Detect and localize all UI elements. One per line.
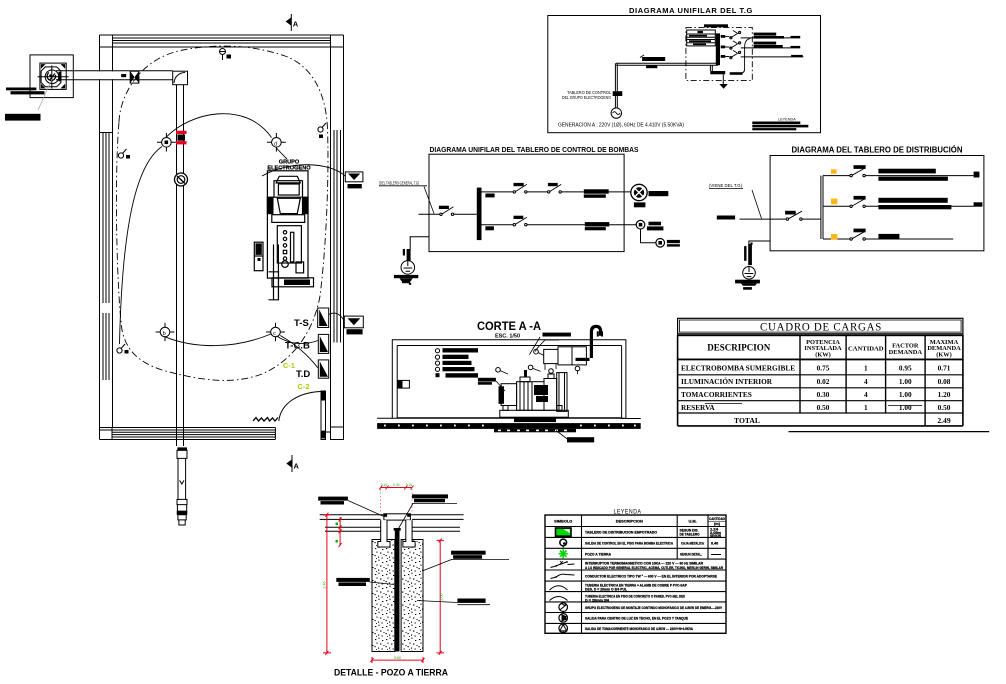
cuadro header box	[678, 335, 963, 359]
ground electrode control	[394, 249, 418, 285]
breaker row1	[721, 31, 801, 39]
svg-text:SEGUN DETAL.: SEGUN DETAL.	[680, 553, 702, 557]
svg-text:1.20: 1.20	[938, 390, 951, 399]
row7 tuberia piso	[550, 594, 686, 602]
pipe horizontal	[56, 71, 173, 83]
label mid-left	[336, 578, 394, 586]
feeder label1	[584, 189, 609, 193]
svg-text:1.00: 1.00	[899, 390, 912, 399]
row6 tuberia	[550, 584, 688, 592]
svg-text:0.75: 0.75	[817, 364, 830, 373]
leyenda frame	[545, 515, 726, 633]
room outer	[377, 340, 641, 419]
row1	[681, 364, 951, 373]
tablero T.D	[296, 360, 329, 380]
row2 salida control	[560, 539, 718, 547]
breaker row2	[721, 41, 801, 49]
svg-text:0.30: 0.30	[393, 483, 399, 487]
incoming wire	[419, 213, 440, 215]
ground wire control	[410, 237, 429, 249]
tablero T-S	[294, 308, 329, 329]
svg-text:(KW): (KW)	[936, 352, 952, 359]
svg-text:CONDUCTOR ELECTRICO TIPO TW °: CONDUCTOR ELECTRICO TIPO TW ° — 600 V — …	[585, 574, 718, 578]
feeder note	[709, 183, 762, 219]
header texts	[707, 339, 961, 359]
frame dist	[770, 156, 984, 251]
svg-text:A: A	[293, 19, 299, 28]
pipe meter M	[178, 135, 186, 141]
total row	[734, 416, 951, 425]
pipe vertical	[177, 85, 184, 446]
muffler boxes	[544, 347, 587, 370]
branch2 label	[485, 226, 494, 230]
dim right	[437, 538, 445, 655]
feeder label bar	[717, 216, 735, 220]
branch1 label R1	[485, 194, 494, 198]
feeder wire TG	[615, 63, 718, 91]
door dim scribble	[253, 418, 278, 422]
svg-text:U.M.: U.M.	[688, 519, 696, 524]
meter table	[687, 30, 716, 46]
svg-text:POZO A TIERRA: POZO A TIERRA	[585, 553, 611, 557]
svg-text:SEGÚN: SEGÚN	[710, 533, 721, 538]
svg-text:0.71: 0.71	[938, 364, 951, 373]
switch S2 left bottom	[117, 344, 129, 354]
svg-text:(DEL TABLERO GENERAL T.G): (DEL TABLERO GENERAL T.G)	[379, 181, 419, 186]
label top-right	[399, 494, 458, 528]
svg-text:C-2: C-2	[298, 382, 310, 391]
row3 pozo tierra	[559, 549, 721, 558]
svg-text:0.30: 0.30	[817, 390, 830, 399]
svg-text:0.40: 0.40	[711, 542, 718, 546]
neutral curve wire	[731, 38, 750, 73]
svg-text:0.08: 0.08	[938, 377, 951, 386]
svg-text:DE TABLERO: DE TABLERO	[680, 533, 700, 537]
symbol P top	[220, 49, 232, 61]
wire d-down	[276, 148, 287, 160]
wall corner bottom-right	[331, 427, 344, 440]
label right	[424, 551, 510, 571]
label below floor	[556, 431, 568, 440]
foundation hatch	[494, 429, 576, 432]
svg-text:0.50: 0.50	[817, 403, 830, 412]
svg-text:RESERVA: RESERVA	[681, 403, 715, 412]
row8 grupo	[559, 603, 723, 612]
svg-text:4: 4	[864, 377, 868, 386]
thermal 2x15A	[548, 183, 562, 193]
wire gen-TG	[262, 165, 345, 176]
lamp c	[266, 323, 285, 342]
top ticks	[597, 331, 599, 336]
registro box	[384, 514, 411, 520]
svg-text:0.10: 0.10	[406, 483, 412, 487]
row9 centro luz	[559, 614, 689, 623]
svg-text:0.02: 0.02	[817, 377, 830, 386]
control outlet P2	[656, 239, 680, 248]
dim left tall	[323, 513, 331, 655]
feeder label TG	[640, 55, 665, 68]
svg-text:DES. D = 20mm O 3/4 PUL: DES. D = 20mm O 3/4 PUL	[585, 588, 628, 592]
svg-text:DIAGRAMA DEL TABLERO DE DISTRI: DIAGRAMA DEL TABLERO DE DISTRIBUCIÓN	[792, 146, 963, 155]
svg-text:1.00: 1.00	[899, 377, 912, 386]
svg-text:A: A	[294, 461, 300, 470]
svg-text:T.D: T.D	[296, 369, 310, 380]
breaker2	[513, 216, 527, 226]
switch S1 left top	[118, 149, 130, 159]
lamp d	[267, 133, 286, 152]
svg-text:TOTAL: TOTAL	[734, 416, 760, 425]
dim left short	[339, 517, 342, 547]
svg-text:2.00: 2.00	[440, 594, 444, 601]
svg-text:ILUMINACIÓN INTERIOR: ILUMINACIÓN INTERIOR	[681, 376, 773, 386]
svg-text:T-S: T-S	[294, 318, 309, 329]
panel on wall	[398, 380, 410, 388]
neutral bar2	[730, 72, 743, 75]
svg-text:SALIDA DE TOMACORRIENTE MONOFA: SALIDA DE TOMACORRIENTE MONOFASICO DE 4.…	[585, 627, 693, 631]
svg-text:1.00: 1.00	[899, 403, 912, 412]
row10 tomacorriente	[559, 624, 693, 633]
neck left	[378, 520, 390, 547]
wall left	[100, 47, 113, 428]
ground electrode dist	[735, 243, 760, 290]
neutral bar1	[710, 71, 725, 74]
frame TG	[548, 16, 821, 133]
dim top	[379, 486, 413, 514]
svg-text:DEMANDA: DEMANDA	[889, 349, 923, 356]
tablero control label	[562, 90, 611, 100]
wall top	[100, 35, 344, 47]
dim bottom	[371, 657, 425, 663]
svg-text:2.49: 2.49	[937, 416, 950, 425]
header leyenda	[554, 516, 725, 526]
bus bar TG	[716, 33, 720, 65]
branch1 wire	[482, 191, 631, 193]
switch right wall	[318, 123, 326, 138]
cuadro grid	[800, 335, 925, 426]
grupo electrogeno label	[267, 160, 311, 172]
main breaker dist	[785, 211, 821, 221]
svg-text:SALIDA PARA CENTRO DE LUZ EN T: SALIDA PARA CENTRO DE LUZ EN TECHO, EN E…	[585, 617, 689, 621]
svg-text:INTERRUPTOR TERMOMAGNETICO CON: INTERRUPTOR TERMOMAGNETICO CON 10KA — 22…	[585, 561, 703, 565]
SEC_TG	[379, 145, 680, 285]
leyenda mini	[752, 118, 808, 131]
label top-left	[318, 497, 384, 517]
svg-text:GRUPO ELECTROGENO DE MONTAJE C: GRUPO ELECTROGENO DE MONTAJE CONTINUO MO…	[585, 606, 722, 610]
svg-text:CANTIDAD: CANTIDAD	[848, 346, 884, 353]
svg-text:DEL GRUPO ELECTROGENO: DEL GRUPO ELECTROGENO	[562, 95, 611, 100]
tablero general dashdot box	[686, 28, 752, 81]
symbol TG triangle box	[345, 172, 363, 189]
tank label	[478, 378, 496, 382]
svg-text:(KW): (KW)	[815, 352, 831, 359]
tablero control black box	[613, 91, 623, 96]
svg-text:d: d	[274, 142, 277, 148]
svg-text:0.50: 0.50	[938, 403, 951, 412]
svg-text:1: 1	[864, 364, 868, 373]
ground wire dist	[749, 241, 770, 244]
surface lines	[320, 515, 464, 532]
svg-text:b: b	[163, 331, 166, 337]
svg-text:0.10: 0.10	[381, 483, 387, 487]
section arrow A bottom	[286, 455, 299, 472]
generator G	[611, 108, 621, 118]
svg-text:C-1: C-1	[283, 361, 295, 370]
svg-text:DESCRIPCION: DESCRIPCION	[616, 519, 643, 524]
wire c-TD	[280, 336, 318, 369]
bus dist	[821, 176, 823, 239]
control outlet P1	[636, 220, 663, 230]
floor slab	[377, 423, 641, 429]
symbol T triangle box right	[329, 313, 364, 334]
contactor 2CPM	[513, 183, 527, 193]
row4	[681, 403, 951, 412]
frame control	[429, 154, 624, 251]
incoming label	[379, 181, 434, 214]
label lower-right	[417, 599, 490, 605]
wire drop	[536, 340, 560, 352]
parts list	[435, 348, 478, 377]
lamp b	[156, 323, 175, 342]
pipe foot below wall	[177, 447, 188, 525]
svg-text:CORTE A -A: CORTE A -A	[477, 319, 541, 333]
svg-text:A LO INDICADO POR GENERAL ELEC: A LO INDICADO POR GENERAL ELECTRIC, ACEM…	[585, 566, 723, 570]
top label bar	[543, 333, 571, 337]
lamp a	[157, 133, 176, 152]
wall bottom	[100, 428, 276, 440]
svg-text:LEYENDA: LEYENDA	[778, 118, 796, 122]
well column left	[372, 540, 395, 652]
conduit dashdot loop	[116, 46, 328, 380]
svg-text:D = 20mm 3/4: D = 20mm 3/4	[585, 598, 609, 602]
svg-text:DETALLE - POZO A TIERRA: DETALLE - POZO A TIERRA	[334, 668, 448, 679]
feeder wire	[740, 218, 787, 220]
svg-text:DIAGRAMA UNIFILAR DEL T.G: DIAGRAMA UNIFILAR DEL T.G	[629, 6, 753, 15]
ground rod	[395, 529, 400, 651]
svg-text:1: 1	[864, 403, 868, 412]
svg-text:DESCRIPCION: DESCRIPCION	[707, 343, 771, 353]
svg-text:CAJA METALICA: CAJA METALICA	[681, 542, 704, 546]
svg-text:4: 4	[864, 390, 868, 399]
svg-text:SIMBOLO: SIMBOLO	[554, 519, 572, 524]
rule below table	[789, 431, 990, 433]
label bars well	[6, 88, 36, 91]
branch1 dist	[823, 165, 979, 181]
cuadro title box	[678, 318, 963, 334]
pipe red unions	[176, 131, 187, 145]
well column right	[401, 540, 423, 652]
breaker row3	[721, 50, 804, 58]
tablero general label	[704, 24, 728, 27]
pipe elbow	[173, 71, 188, 85]
svg-text:CUADRO DE CARGAS: CUADRO DE CARGAS	[760, 319, 882, 333]
svg-text:GENERACION A : 220V (1Ø), 60Hz: GENERACION A : 220V (1Ø), 60Hz DE 4.410V…	[558, 123, 684, 129]
grupo electrogeno plan	[254, 171, 313, 300]
leyenda grid	[545, 527, 726, 624]
section arrow A top	[286, 14, 299, 31]
pipe valve circle	[175, 173, 188, 186]
wire a-switch	[120, 147, 163, 345]
wall right	[331, 47, 344, 428]
wire box to generator	[615, 96, 617, 108]
svg-text:c: c	[273, 331, 276, 337]
wire a-d	[166, 114, 272, 138]
row1 tablero	[556, 528, 722, 539]
SEC_CONTROL	[709, 146, 984, 290]
neck right	[403, 520, 415, 547]
well box	[30, 55, 73, 98]
SEC_CORTE	[678, 318, 990, 431]
svg-text:TABLERO DE DISTRIBUCION EMPOTR: TABLERO DE DISTRIBUCION EMPOTRADO	[585, 531, 657, 535]
svg-text:2.40: 2.40	[323, 582, 327, 589]
SEC_DIST	[377, 319, 641, 442]
door arc	[279, 392, 321, 422]
svg-text:SALIDA DE CONTROL EN EL PISO P: SALIDA DE CONTROL EN EL PISO PARA BOMBA …	[585, 542, 673, 546]
svg-text:(VIENE DEL T.G): (VIENE DEL T.G)	[709, 183, 743, 188]
feeder label2	[585, 222, 610, 226]
ground arrow TG	[719, 74, 727, 89]
bolt markers	[496, 349, 580, 374]
branch3 dist	[823, 229, 953, 241]
SEC_CUADRO	[545, 509, 726, 634]
row2	[681, 376, 951, 386]
row4 interruptor	[551, 561, 724, 570]
main breaker 2x30A	[439, 206, 477, 216]
SEC_PLAN	[548, 6, 821, 133]
bus bar control	[477, 188, 482, 241]
wire P1-P2	[641, 229, 656, 243]
tablero T-C.B	[285, 334, 329, 353]
genset side view	[499, 369, 569, 422]
svg-text:0.60: 0.60	[394, 656, 401, 660]
row5 conductor	[551, 574, 718, 578]
svg-text:T-C.B: T-C.B	[285, 341, 310, 352]
svg-text:ELECTROBOMBA SUMERGIBLE: ELECTROBOMBA SUMERGIBLE	[681, 364, 795, 373]
exhaust pipe gooseneck	[576, 326, 601, 361]
svg-text:TOMACORRIENTES: TOMACORRIENTES	[681, 390, 752, 399]
row3	[681, 390, 951, 399]
svg-text:ESC. 1/50: ESC. 1/50	[495, 334, 520, 340]
branch2 wire	[482, 224, 637, 226]
door leaf	[321, 391, 331, 440]
wire b-c	[165, 334, 271, 346]
svg-text:DIAGRAMA UNIFILAR DEL TABLERO: DIAGRAMA UNIFILAR DEL TABLERO DE CONTROL…	[430, 145, 639, 154]
svg-text:0.95: 0.95	[899, 364, 912, 373]
branch2 dist	[823, 196, 982, 209]
wire TCB	[277, 336, 319, 344]
motor M1	[631, 184, 669, 207]
